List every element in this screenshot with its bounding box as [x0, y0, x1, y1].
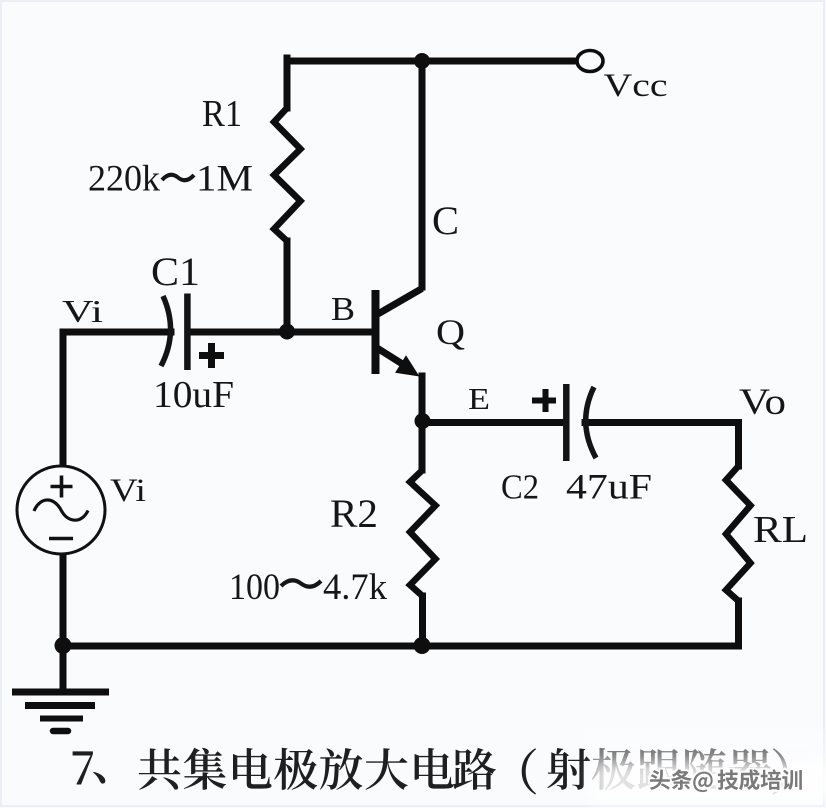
capacitor C2 straight plate: [563, 384, 570, 461]
wire Vi left vertical: [60, 332, 67, 465]
resistor R1: [274, 108, 301, 241]
svg-text:R2: R2: [330, 491, 378, 536]
svg-text:1M: 1M: [196, 159, 253, 200]
svg-text:C1: C1: [151, 249, 200, 294]
C1 plus sign: [199, 343, 224, 368]
wire R1 top lead: [284, 58, 291, 108]
node dot top rail: [414, 53, 430, 69]
svg-text:Vo: Vo: [739, 382, 786, 423]
svg-text:R1: R1: [202, 93, 242, 135]
wire Vi top rail: [63, 329, 171, 336]
ground bar 3: [40, 716, 83, 722]
watermark text: [650, 769, 802, 792]
wire C2 right to corner: [585, 419, 739, 426]
capacitor C1 curved plate: [161, 296, 171, 366]
svg-text:220k: 220k: [88, 159, 160, 200]
source plus: [51, 476, 73, 498]
wire base rail: [191, 329, 372, 336]
wire bottom rail: [63, 643, 739, 650]
label R2 value tilde: [281, 580, 321, 586]
C2 plus sign: [532, 389, 556, 412]
svg-text:Vcc: Vcc: [604, 68, 668, 104]
watermark glow: [650, 769, 802, 792]
svg-text:Vi: Vi: [110, 473, 146, 509]
svg-text:4.7k: 4.7k: [323, 567, 387, 608]
node dot emitter: [415, 413, 431, 429]
Vcc terminal circle: [577, 51, 603, 72]
watermark backdrop wash: [592, 762, 826, 802]
node dot bottom left: [55, 637, 72, 654]
resistor RL: [726, 466, 751, 601]
source Vi circle: [17, 466, 105, 554]
transistor emitter arrowhead: [395, 355, 419, 376]
resistor R2: [410, 470, 436, 596]
caption title faded part: [592, 748, 787, 795]
wire emitter vertical: [419, 376, 426, 422]
svg-text:100: 100: [229, 567, 280, 608]
caption washed-out overlay zone: [588, 733, 826, 803]
ground bar 2: [25, 702, 95, 709]
svg-text:Vi: Vi: [62, 293, 103, 329]
svg-text:RL: RL: [753, 509, 808, 551]
wire emitter rail: [422, 419, 562, 426]
node dot base: [279, 324, 295, 340]
svg-text:10uF: 10uF: [153, 374, 234, 416]
caption title dark part: [73, 748, 591, 795]
wire RL top lead: [735, 423, 742, 467]
wire RL bottom lead: [735, 601, 742, 646]
ground bar 4: [53, 728, 68, 735]
node dot bottom R2: [414, 637, 431, 654]
capacitor C1 straight plate: [184, 294, 191, 371]
source sine: [34, 500, 88, 520]
wire top rail: [287, 58, 577, 65]
svg-text:C: C: [432, 198, 459, 243]
source minus: [49, 537, 73, 540]
ground bar 1: [12, 689, 109, 696]
transistor Q base bar: [372, 290, 380, 374]
wire R2 top lead: [419, 422, 426, 470]
wire R2 bottom lead: [419, 596, 426, 646]
transistor emitter diagonal: [377, 348, 408, 368]
label R1 value tilde: [162, 175, 194, 180]
wire R1 bottom lead: [284, 241, 291, 331]
svg-text:C2: C2: [501, 468, 539, 507]
wire ground stub: [60, 646, 67, 689]
wire source to bottom: [60, 554, 67, 645]
svg-text:B: B: [331, 291, 355, 328]
wire collector vertical: [419, 61, 426, 287]
transistor collector diagonal: [377, 289, 422, 315]
capacitor C2 curved plate: [586, 387, 596, 458]
svg-text:47uF: 47uF: [566, 467, 652, 507]
svg-text:Q: Q: [436, 312, 465, 352]
svg-text:E: E: [468, 381, 490, 416]
